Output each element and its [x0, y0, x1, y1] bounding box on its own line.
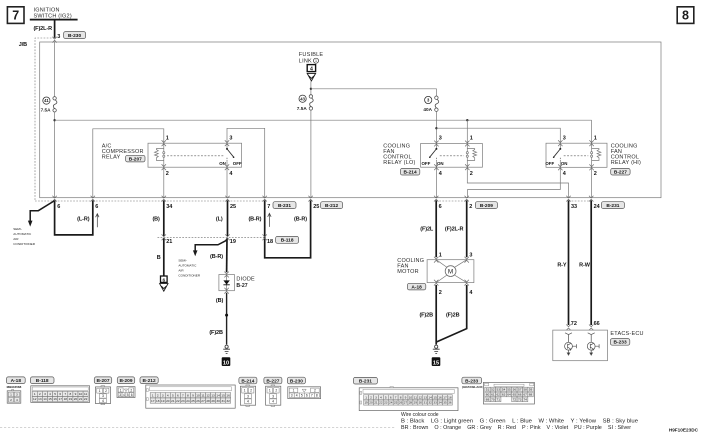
- fuse 43 7.5A: [297, 95, 313, 111]
- svg-text:8: 8: [187, 393, 189, 397]
- svg-text:25: 25: [230, 204, 236, 210]
- connector B-118 pinout: [30, 377, 89, 403]
- svg-text:1: 1: [244, 389, 246, 393]
- svg-text:3: 3: [469, 253, 472, 259]
- svg-text:24: 24: [186, 399, 190, 403]
- svg-text:57: 57: [518, 388, 522, 392]
- svg-text:20: 20: [74, 397, 78, 401]
- svg-text:1: 1: [152, 393, 154, 397]
- semi-automatic air conditioner text (left): [13, 227, 35, 246]
- svg-text:23: 23: [181, 399, 185, 403]
- svg-text:B-207: B-207: [96, 378, 109, 384]
- svg-text:14: 14: [216, 393, 220, 397]
- svg-text:59: 59: [529, 388, 533, 392]
- svg-text:2: 2: [370, 395, 372, 399]
- svg-text:B-227: B-227: [614, 170, 627, 176]
- svg-text:B-209: B-209: [119, 378, 132, 384]
- svg-text:7: 7: [182, 393, 184, 397]
- svg-text:26: 26: [196, 399, 200, 403]
- svg-text:2: 2: [275, 389, 277, 393]
- page ref box 8: [677, 7, 694, 24]
- svg-text:43: 43: [300, 96, 305, 101]
- svg-text:72: 72: [571, 321, 577, 327]
- pin 25 B-212 exit label: [313, 202, 342, 211]
- svg-text:3: 3: [439, 135, 442, 141]
- wire pin 6 loop through semi-automatic A/C: [55, 200, 93, 235]
- transistor driver Q1 in ETACS: [565, 333, 577, 355]
- ground symbol G10: [223, 345, 230, 353]
- wire main bus rectangle inside J/B: [40, 42, 661, 198]
- svg-text:1: 1: [269, 389, 271, 393]
- svg-text:61: 61: [491, 393, 495, 397]
- svg-text:69: 69: [486, 398, 490, 402]
- svg-text:IGNITION: IGNITION: [34, 7, 60, 13]
- node relay K2 pin crossings: [434, 141, 469, 171]
- svg-text:B-231: B-231: [278, 203, 291, 209]
- svg-text:32: 32: [428, 401, 432, 405]
- svg-text:13: 13: [38, 397, 42, 401]
- svg-text:18: 18: [64, 397, 68, 401]
- connector B-233 pinout: [462, 377, 535, 404]
- svg-text:24: 24: [594, 204, 601, 210]
- off-page arrow from 4: [307, 73, 315, 81]
- wire HI coil pin 2 to exit 24: [591, 167, 593, 197]
- semi-automatic air conditioner text (mid): [178, 259, 200, 278]
- ground ref box 15: [432, 357, 441, 366]
- svg-text:10: 10: [196, 393, 200, 397]
- wire exit 25 to connector B-118 pin 19: [227, 200, 229, 236]
- svg-text:AIR: AIR: [13, 237, 19, 241]
- svg-text:66: 66: [518, 393, 522, 397]
- node B-118 pin 19 crossing: [225, 234, 229, 240]
- svg-text:1: 1: [594, 135, 597, 141]
- svg-text:29: 29: [211, 399, 215, 403]
- svg-text:(F)2L: (F)2L: [420, 227, 434, 233]
- svg-text:3: 3: [102, 394, 104, 398]
- pin 24 B-231 exit label: [594, 202, 625, 211]
- svg-text:6: 6: [59, 392, 61, 396]
- svg-text:B: B: [157, 255, 161, 261]
- off-page source box 4: [307, 65, 315, 73]
- svg-text:15: 15: [221, 393, 225, 397]
- svg-text:CONDITIONER: CONDITIONER: [178, 273, 200, 277]
- node B-118 pin 18 crossing: [263, 234, 267, 240]
- connector A-18 pinout: [6, 377, 25, 403]
- connector B-231 pinout: [353, 377, 458, 410]
- motor M1 cooling fan motor A-18: [397, 253, 474, 297]
- svg-text:7: 7: [311, 393, 313, 397]
- svg-text:54: 54: [502, 388, 506, 392]
- svg-text:AIR: AIR: [178, 268, 184, 272]
- svg-text:B-230: B-230: [68, 33, 81, 39]
- svg-text:R-Y: R-Y: [557, 262, 567, 268]
- svg-text:9: 9: [405, 395, 407, 399]
- wire coil feed bus (line A): [55, 119, 592, 121]
- connector B-209 pinout: [117, 377, 135, 398]
- svg-text:19: 19: [364, 401, 368, 405]
- node B-118 pin 21 crossing: [162, 234, 166, 240]
- svg-text:10: 10: [79, 392, 83, 396]
- diode D1 B-27: [219, 272, 255, 294]
- svg-text:23: 23: [384, 401, 388, 405]
- pin 7 B-231 exit label: [267, 202, 296, 211]
- svg-text:1: 1: [120, 388, 122, 392]
- svg-text:RELAY: RELAY: [102, 154, 121, 160]
- svg-text:ON: ON: [219, 161, 226, 166]
- svg-text:(F)2L-R: (F)2L-R: [33, 26, 52, 32]
- svg-text:RELAY (HI): RELAY (HI): [611, 160, 641, 166]
- svg-text:AUTOMATIC: AUTOMATIC: [13, 232, 32, 236]
- svg-text:4: 4: [16, 398, 18, 402]
- svg-text:18: 18: [156, 399, 160, 403]
- svg-text:1: 1: [166, 135, 169, 141]
- wire exit 6 to motor pin 1: [435, 200, 437, 257]
- svg-text:12: 12: [206, 393, 210, 397]
- svg-text:20: 20: [166, 399, 170, 403]
- svg-text:25: 25: [394, 401, 398, 405]
- svg-text:4: 4: [102, 399, 104, 403]
- svg-text:16: 16: [53, 397, 57, 401]
- svg-text:7.5A: 7.5A: [41, 107, 52, 112]
- svg-text:3: 3: [162, 393, 164, 397]
- svg-text:4: 4: [272, 399, 274, 403]
- svg-text:27: 27: [404, 401, 408, 405]
- wire motor pin 2 to ground 15: [435, 285, 437, 345]
- svg-text:B-233: B-233: [465, 378, 478, 384]
- svg-text:13: 13: [424, 395, 428, 399]
- svg-text:H9F10E23DC: H9F10E23DC: [669, 428, 699, 433]
- svg-text:(B-R): (B-R): [294, 216, 307, 222]
- wire A/C switch pin3 from pin 7: [227, 128, 265, 197]
- svg-text:2: 2: [439, 290, 442, 296]
- svg-text:(L): (L): [216, 216, 223, 222]
- svg-text:8: 8: [400, 395, 402, 399]
- wire A/C coil pin 2 to exit 34: [163, 167, 165, 198]
- svg-text:3: 3: [16, 393, 18, 397]
- svg-text:65: 65: [513, 393, 517, 397]
- svg-text:7.5A: 7.5A: [297, 106, 308, 111]
- svg-text:OFF: OFF: [422, 161, 431, 166]
- svg-text:3: 3: [375, 395, 377, 399]
- coil of relay K3: [591, 143, 601, 167]
- svg-text:J/B: J/B: [19, 42, 27, 48]
- svg-text:33: 33: [571, 204, 577, 210]
- svg-text:DIODE: DIODE: [236, 276, 255, 282]
- svg-text:26: 26: [399, 401, 403, 405]
- svg-text:5: 5: [127, 393, 129, 397]
- svg-text:34: 34: [438, 401, 442, 405]
- svg-text:17: 17: [443, 395, 447, 399]
- svg-text:AUTOMATIC: AUTOMATIC: [178, 264, 197, 268]
- ECU U1 ETACS-ECU B-233: [553, 330, 644, 361]
- svg-text:16: 16: [438, 395, 442, 399]
- connector B-227 pinout: [264, 377, 282, 406]
- svg-text:29: 29: [414, 401, 418, 405]
- svg-text:1: 1: [34, 392, 36, 396]
- svg-text:56: 56: [513, 388, 517, 392]
- svg-text:6: 6: [57, 204, 60, 210]
- wire HI switch pin 4 to exit 2 B-209: [468, 167, 561, 197]
- svg-text:60: 60: [486, 393, 490, 397]
- svg-text:74: 74: [523, 398, 527, 402]
- wire exit 34 to connector B-118 pin 21: [163, 200, 165, 236]
- svg-text:B-207: B-207: [129, 156, 142, 162]
- svg-text:2: 2: [130, 388, 132, 392]
- svg-text:19: 19: [69, 397, 73, 401]
- svg-text:58: 58: [523, 388, 527, 392]
- wire branch 2 to semi-automatic air conditioner: [193, 240, 227, 256]
- svg-text:40A: 40A: [423, 107, 432, 112]
- svg-text:2: 2: [39, 392, 41, 396]
- wire colour code text: [401, 412, 638, 431]
- svg-text:7: 7: [267, 204, 270, 210]
- svg-text:4: 4: [123, 393, 125, 397]
- ignition switch (IG2) header: [30, 7, 78, 20]
- svg-text:SEMI-: SEMI-: [13, 227, 22, 231]
- wire pin 21 to off-page ground 6: [163, 238, 165, 275]
- svg-text:12: 12: [419, 395, 423, 399]
- svg-text:B-27: B-27: [236, 283, 247, 289]
- svg-text:7: 7: [12, 9, 19, 23]
- svg-text:FUSIBLE: FUSIBLE: [299, 52, 324, 58]
- off-page box 6: [161, 276, 168, 283]
- svg-text:6: 6: [162, 277, 165, 283]
- svg-text:2: 2: [105, 389, 107, 393]
- svg-text:34: 34: [166, 204, 173, 210]
- svg-text:11: 11: [84, 392, 87, 396]
- svg-text:68: 68: [529, 393, 533, 397]
- svg-text:30: 30: [419, 401, 423, 405]
- svg-text:B-212: B-212: [325, 203, 338, 209]
- svg-text:28: 28: [409, 401, 413, 405]
- svg-text:(B): (B): [216, 298, 224, 304]
- wire pin 19 to diode: [226, 238, 228, 272]
- coil of relay K1: [155, 143, 165, 167]
- svg-text:(B-R): (B-R): [210, 254, 223, 260]
- svg-text:2: 2: [157, 393, 159, 397]
- svg-text:21: 21: [374, 401, 378, 405]
- svg-text:71: 71: [497, 398, 501, 402]
- svg-text:6: 6: [131, 393, 133, 397]
- svg-text:63: 63: [502, 393, 506, 397]
- wire exit 24 to ETACS pin 66: [590, 200, 592, 325]
- relay K2 cooling fan control relay (LO) B-214: [383, 135, 482, 177]
- svg-text:11: 11: [414, 395, 417, 399]
- wire diode to ground 10: [226, 293, 228, 345]
- svg-text:2: 2: [594, 171, 597, 177]
- wire fuse 43 to exit 25 B-212: [310, 110, 312, 198]
- svg-text:5: 5: [172, 393, 174, 397]
- svg-text:30: 30: [216, 399, 220, 403]
- wire fuse 41 output: [54, 112, 56, 198]
- wire LO coil pin 2 to exit 33: [467, 167, 568, 198]
- svg-text:5: 5: [301, 393, 303, 397]
- svg-text:3: 3: [563, 135, 566, 141]
- svg-text:(L-R): (L-R): [77, 216, 90, 222]
- wire LO switch pin 4 to exit 6: [435, 167, 437, 198]
- svg-text:(GRAY/BLACK): (GRAY/BLACK): [462, 385, 484, 389]
- fuse 3 40A: [423, 96, 438, 112]
- svg-text:4: 4: [380, 395, 382, 399]
- svg-text:64: 64: [507, 393, 511, 397]
- svg-text:BR : Brown O : Orange GR: BR : Brown O : Orange GR : Grey R : Red …: [401, 425, 631, 431]
- svg-text:13: 13: [211, 393, 215, 397]
- svg-text:7: 7: [395, 395, 397, 399]
- svg-text:22: 22: [84, 397, 88, 401]
- svg-text:4: 4: [310, 67, 313, 73]
- svg-text:(F)2B: (F)2B: [209, 330, 223, 336]
- svg-text:4: 4: [167, 393, 169, 397]
- wire LO coil pin 1 drop: [466, 120, 468, 143]
- fuse 41 7.5A: [41, 97, 57, 113]
- svg-text:4: 4: [49, 392, 51, 396]
- svg-text:70: 70: [491, 398, 495, 402]
- svg-text:9: 9: [75, 392, 77, 396]
- svg-text:Wire colour code: Wire colour code: [401, 412, 439, 418]
- svg-text:B-118: B-118: [281, 238, 294, 244]
- pin 18 B-118 label: [267, 236, 299, 244]
- svg-text:3: 3: [229, 135, 232, 141]
- wire exit 33 to ETACS pin 72: [568, 200, 570, 325]
- flow arrow up at pin 7: [268, 213, 271, 227]
- svg-text:18: 18: [267, 239, 273, 245]
- svg-text:67: 67: [523, 393, 527, 397]
- svg-text:3: 3: [247, 394, 249, 398]
- node B-230 crossing: [52, 37, 56, 43]
- transistor driver Q2 in ETACS: [587, 333, 599, 355]
- svg-text:15: 15: [433, 360, 439, 366]
- junction block J/B dashed outline: [35, 38, 591, 201]
- svg-text:LINK: LINK: [299, 58, 312, 64]
- svg-text:31: 31: [221, 399, 225, 403]
- svg-text:10: 10: [223, 360, 229, 366]
- svg-text:1: 1: [470, 135, 473, 141]
- svg-text:5: 5: [54, 392, 56, 396]
- svg-text:1: 1: [439, 253, 442, 259]
- svg-text:3: 3: [272, 394, 274, 398]
- svg-text:14: 14: [43, 397, 47, 401]
- page ref box 7: [7, 7, 24, 24]
- svg-text:55: 55: [507, 388, 511, 392]
- connector B-230 pin 3: [57, 32, 85, 41]
- relay K1 A/C compressor relay B-207: [102, 135, 242, 177]
- svg-text:51: 51: [486, 388, 490, 392]
- svg-text:6: 6: [95, 204, 98, 210]
- svg-text:(F)2B: (F)2B: [419, 313, 433, 319]
- svg-text:53: 53: [497, 388, 501, 392]
- svg-text:(F)2L-R: (F)2L-R: [445, 227, 464, 233]
- connector B-230 pinout: [287, 377, 320, 398]
- svg-text:8: 8: [316, 393, 318, 397]
- wire fusible link feed: [310, 81, 312, 95]
- svg-text:B-212: B-212: [143, 378, 156, 384]
- svg-text:3: 3: [119, 393, 121, 397]
- svg-text:7: 7: [64, 392, 66, 396]
- off-page arrow from 6: [160, 284, 168, 292]
- faint bottom rule: [0, 426, 396, 428]
- svg-text:11: 11: [201, 393, 204, 397]
- svg-text:8: 8: [70, 392, 72, 396]
- svg-text:(B): (B): [152, 216, 160, 222]
- svg-text:B-214: B-214: [241, 378, 254, 384]
- svg-text:62: 62: [497, 393, 501, 397]
- svg-text:35: 35: [443, 401, 447, 405]
- svg-text:RELAY (LO): RELAY (LO): [383, 160, 415, 166]
- svg-text:5: 5: [385, 395, 387, 399]
- svg-text:27: 27: [201, 399, 205, 403]
- svg-text:1: 1: [315, 59, 317, 63]
- svg-text:SEMI-: SEMI-: [178, 259, 187, 263]
- svg-text:1: 1: [365, 395, 367, 399]
- svg-text:28: 28: [206, 399, 210, 403]
- svg-text:B : Black LG : Light green: B : Black LG : Light green G : Green L :…: [401, 418, 638, 424]
- node fuse 41 junction: [53, 119, 55, 121]
- fusible link 1: [299, 52, 324, 64]
- svg-text:10: 10: [409, 395, 413, 399]
- svg-text:21: 21: [166, 239, 172, 245]
- svg-text:6: 6: [439, 204, 442, 210]
- svg-text:6: 6: [177, 393, 179, 397]
- svg-text:2: 2: [166, 171, 169, 177]
- svg-text:B-230: B-230: [290, 378, 303, 384]
- svg-text:15: 15: [433, 395, 437, 399]
- svg-text:2: 2: [470, 171, 473, 177]
- svg-text:24: 24: [389, 401, 393, 405]
- svg-text:21: 21: [171, 399, 175, 403]
- svg-text:9: 9: [192, 393, 194, 397]
- svg-text:41: 41: [44, 98, 49, 103]
- coil of relay K2: [466, 144, 476, 168]
- svg-text:(B-R): (B-R): [248, 216, 261, 222]
- switch of relay K3: [545, 143, 588, 167]
- node fusible link junction: [310, 88, 312, 90]
- svg-text:(F)2B: (F)2B: [446, 313, 460, 319]
- node fuse 3 branch junction: [435, 127, 437, 129]
- wire return bus pin6 to A/C coil pin 1: [93, 129, 164, 198]
- wire fuse 3 to LO switch pin 3: [435, 111, 437, 143]
- wire fuse 41 feed: [54, 41, 56, 96]
- node motor pin crossings: [434, 257, 469, 286]
- svg-text:4: 4: [296, 393, 298, 397]
- wire HI coil pin 1 drop: [591, 120, 593, 143]
- svg-text:B-231: B-231: [606, 203, 619, 209]
- switch of relay K1: [167, 143, 242, 167]
- node coil feed junction LO: [466, 119, 468, 121]
- svg-text:A-18: A-18: [11, 378, 22, 384]
- svg-text:B-209: B-209: [480, 203, 493, 209]
- svg-text:M: M: [448, 268, 453, 275]
- svg-text:73: 73: [518, 398, 522, 402]
- svg-text:3: 3: [291, 393, 293, 397]
- svg-text:66: 66: [594, 321, 600, 327]
- svg-text:3: 3: [44, 392, 46, 396]
- svg-text:36: 36: [448, 401, 452, 405]
- connector B-207 pinout: [94, 377, 111, 405]
- ground symbol G15: [433, 345, 440, 353]
- svg-text:CONDITIONER: CONDITIONER: [13, 242, 35, 246]
- svg-text:6: 6: [390, 395, 392, 399]
- connector B-212 pinout: [140, 377, 235, 408]
- node relay K3 pin crossings: [558, 140, 594, 170]
- wire to fuse 3: [311, 89, 437, 96]
- svg-text:25: 25: [191, 399, 195, 403]
- svg-text:R-W: R-W: [579, 262, 591, 268]
- svg-text:14: 14: [428, 395, 432, 399]
- svg-text:B-214: B-214: [404, 170, 417, 176]
- wire A/C switch pin 4 to exit 25: [226, 167, 228, 198]
- svg-text:12: 12: [33, 397, 37, 401]
- svg-text:8: 8: [682, 9, 689, 23]
